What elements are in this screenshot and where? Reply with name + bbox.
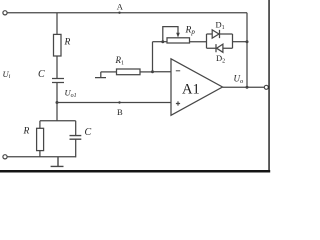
wire Uo1 to op-amp noninverting input	[57, 102, 171, 104]
svg-text:C: C	[38, 69, 45, 80]
border bottom	[0, 170, 270, 173]
node feedback right junction	[246, 40, 249, 43]
op-amp plus sign	[176, 101, 180, 105]
border right	[268, 0, 270, 171]
wire feedback vertical riser	[152, 42, 154, 72]
diode D2	[216, 44, 223, 52]
wire parallel branch stem	[56, 103, 58, 121]
svg-text:B: B	[117, 107, 123, 117]
svg-text:A: A	[117, 1, 124, 11]
potentiometer Rp body	[167, 38, 190, 43]
wire series branch upper	[56, 13, 58, 35]
wire diode loop top segments	[207, 33, 233, 35]
wire output	[223, 86, 265, 88]
ground (bottom)	[51, 157, 64, 167]
wire right branch upper	[75, 121, 77, 136]
wire diode loop right side	[232, 34, 234, 48]
wire right branch lower	[74, 139, 77, 157]
node B	[118, 101, 120, 103]
capacitor C (parallel)	[70, 136, 82, 140]
wire feedback to Rp	[153, 41, 168, 43]
node inverting input junction	[151, 70, 154, 73]
input terminal top	[3, 11, 7, 15]
wire parallel network top bar	[40, 120, 76, 122]
resistor R1	[117, 69, 141, 75]
wire Rp to diode pair	[190, 41, 207, 43]
diode D1	[212, 30, 219, 38]
input terminal bottom	[3, 155, 7, 159]
wire left branch upper	[39, 121, 41, 129]
op-amp minus sign	[176, 70, 180, 72]
wire R1 to inverting node	[140, 71, 153, 73]
wire inverting input	[153, 71, 172, 73]
svg-text:Rp: Rp	[185, 26, 196, 37]
potentiometer Rp wiper arrowhead	[176, 33, 180, 38]
resistor R (parallel)	[37, 128, 44, 150]
wire potentiometer wiper loop	[163, 27, 178, 42]
wire output feedback vertical	[246, 13, 248, 88]
ground (R1 left end)	[95, 72, 106, 78]
svg-text:R: R	[64, 38, 71, 48]
wire R to C	[56, 56, 58, 78]
node output junction	[246, 86, 249, 89]
wire C to node Uo1	[56, 83, 58, 103]
wire left branch lower	[39, 151, 41, 157]
svg-text:R: R	[23, 127, 30, 137]
output terminal	[264, 85, 268, 89]
wire diode loop left side	[206, 34, 208, 48]
resistor R (series)	[54, 34, 62, 56]
node A	[118, 12, 120, 14]
node wiper tie junction	[161, 40, 164, 43]
wire top rail	[7, 12, 247, 14]
wire R1 left lead	[101, 71, 117, 73]
svg-text:A1: A1	[182, 82, 200, 98]
node Uo1 junction	[56, 101, 59, 104]
wire bottom rail	[7, 156, 76, 158]
capacitor C (series)	[52, 79, 64, 83]
wire diode loop bottom segments	[207, 47, 233, 49]
svg-text:C: C	[85, 127, 92, 138]
wire diode pair to feedback riser	[233, 41, 248, 43]
op-amp A1	[171, 59, 223, 116]
